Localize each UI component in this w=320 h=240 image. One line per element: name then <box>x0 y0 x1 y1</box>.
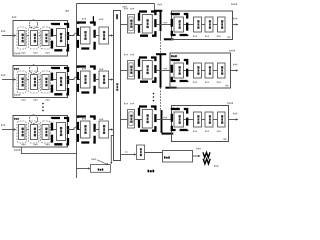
stage block row 3 s1 <box>17 121 27 143</box>
tick mark row 1 <box>92 16 94 23</box>
node : LO drop corner <box>154 4 156 12</box>
stage block row 1 s1 <box>17 27 27 49</box>
bold highlight around first PA row 1 <box>172 14 187 35</box>
splitter-combiner U536 (tall box) <box>114 11 121 161</box>
amplifier chain box row 1 <box>172 11 233 40</box>
dashed circle annotation above stage 2 <box>29 115 37 124</box>
mixer block row 2 (bold highlight) <box>139 58 155 82</box>
PA block row 1 b4 <box>218 17 226 32</box>
wire : vertical bus left of centre <box>76 4 78 179</box>
input arrow row 2 <box>2 79 15 81</box>
wire : LO bold elbow into row1 box <box>164 38 174 40</box>
wire : LO bold bar row 2 <box>156 53 166 55</box>
wire : LO bold top bar <box>154 10 162 12</box>
dashed circle annotation above stage 2 <box>29 65 37 74</box>
PA block row 1 b3 <box>205 17 213 32</box>
wire combiner to phase shifter row 2 <box>121 70 128 72</box>
PA block row 3 b3 <box>205 112 213 127</box>
wire : top LO/bus horizontal <box>77 3 155 5</box>
phase shifter block row 3 <box>128 110 135 129</box>
wire combiner to phase shifter row 1 <box>121 24 128 26</box>
bold highlight around first PA row 3 <box>172 109 187 130</box>
stage block row 2 s1 <box>17 71 27 93</box>
PA block row 2 b1 <box>174 63 184 78</box>
filter block row 2 (bold highlight) <box>78 67 95 93</box>
PA block row 3 b4 <box>218 112 226 127</box>
chain box 524 row 3 <box>13 116 68 148</box>
wire row 2 <box>95 79 100 81</box>
amplifier chain box row 2 <box>170 53 231 88</box>
stage block row 1 s2 <box>29 27 40 49</box>
wire row 3 <box>95 129 100 131</box>
output arrow row 3 <box>229 119 237 121</box>
PA block row 1 b2 <box>194 17 202 32</box>
wire combiner to feedback block <box>121 154 135 156</box>
tick label above left chain box <box>66 10 67 12</box>
phase shifter block row 1 <box>128 15 135 34</box>
stage block row 1 s3 <box>41 27 51 49</box>
feedback block 542 <box>137 145 145 160</box>
PA block row 2 b2 <box>194 63 202 78</box>
feedback wire row 3 to bus <box>21 147 76 154</box>
VGA block row 1 <box>99 27 109 44</box>
filter block row 3 (bold highlight) <box>78 117 95 143</box>
vertical ellipsis left <box>42 103 44 105</box>
wire with hop over bus row 1 <box>68 33 81 35</box>
output arrow row 1 <box>233 24 237 26</box>
wire row 1 <box>95 35 100 37</box>
dashed circle annotation above stage 2 <box>29 20 37 29</box>
label 546 with arrow <box>92 158 93 160</box>
vertical ellipsis right <box>153 93 155 95</box>
amplifier chain box row 3 <box>172 106 229 142</box>
phase shifter block row 2 <box>128 61 135 80</box>
VGA block row 2 <box>99 71 109 88</box>
wire combiner down to controller <box>111 136 113 163</box>
figure label 548 <box>148 170 150 173</box>
wire combiner to phase shifter row 3 <box>121 119 128 121</box>
chain box 514 row 1 <box>13 21 68 57</box>
input arrow row 3 <box>2 129 15 131</box>
wire into combiner row 1 <box>109 35 112 37</box>
amplifier stage row 3 s4 (bold highlight) <box>51 129 57 131</box>
input arrow row 1 <box>2 35 15 37</box>
PA block row 3 b2 <box>194 112 202 127</box>
PA block row 1 b1 <box>174 17 184 32</box>
amplifier stage row 2 s4 (bold highlight) <box>51 79 57 81</box>
stage block row 3 s2 <box>29 121 40 143</box>
mixer block row 3 (bold highlight) <box>139 107 155 131</box>
wire 542 to 544 <box>145 152 163 154</box>
load W symbols <box>203 152 210 157</box>
wire into combiner row 3 <box>109 129 112 131</box>
mixer block row 1 (bold highlight) <box>139 12 155 36</box>
wire into combiner row 2 <box>109 79 112 81</box>
PA block row 2 b3 <box>205 63 213 78</box>
wire 544 to load <box>193 155 199 157</box>
wire : LO distribution vertical <box>160 11 162 31</box>
stage block row 2 s3 <box>41 71 51 93</box>
output arrow row 2 <box>231 70 237 72</box>
stage block row 3 s3 <box>41 121 51 143</box>
filter block row 1 (bold highlight) <box>78 23 95 49</box>
PA block row 3 b1 <box>174 112 184 127</box>
wire with hop over bus row 2 <box>68 77 81 79</box>
chain box 524 row 2 <box>13 66 68 98</box>
local oscillator 544 <box>163 151 193 163</box>
wire : LO bold elbow into row2 box <box>165 87 176 89</box>
VGA block row 3 <box>99 121 109 138</box>
wire : LO bold elbow into row3 box <box>162 133 174 135</box>
PA block row 2 b4 <box>218 63 226 78</box>
wire with hop over bus row 3 <box>68 127 81 129</box>
controller box 540 <box>77 168 89 170</box>
bold highlight around first PA row 2 <box>172 60 187 81</box>
amplifier stage row 1 s4 (bold highlight) <box>51 35 57 37</box>
stage block row 2 s2 <box>29 71 40 93</box>
